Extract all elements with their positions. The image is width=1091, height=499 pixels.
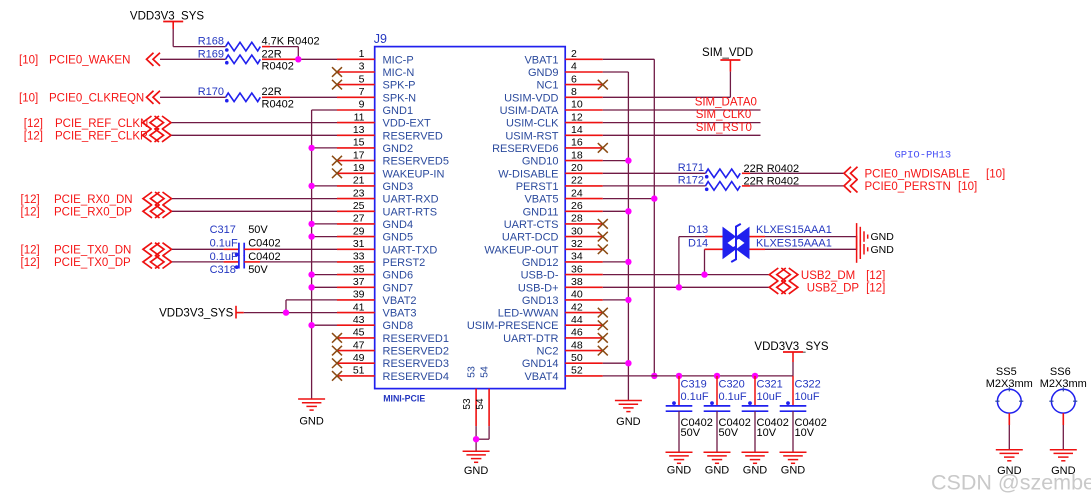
svg-text:[12]: [12]: [24, 131, 43, 143]
svg-text:10uF: 10uF: [757, 391, 782, 403]
svg-text:GND2: GND2: [383, 143, 414, 155]
svg-text:GND4: GND4: [383, 219, 414, 231]
svg-text:[10]: [10]: [19, 55, 38, 67]
svg-text:34: 34: [571, 251, 583, 263]
svg-text:50V: 50V: [681, 427, 701, 439]
wire C319 to GND: [678, 411, 680, 452]
wire SIM_VDD to pin 8: [603, 72, 731, 98]
wire R168 to pin1 net: [262, 47, 298, 60]
wire C317 to pin 31: [244, 248, 337, 250]
wire pin 38 net to D13: [679, 237, 723, 288]
svg-text:25: 25: [353, 200, 365, 212]
svg-text:RESERVED6: RESERVED6: [492, 143, 558, 155]
svg-text:MIC-P: MIC-P: [383, 54, 414, 66]
svg-text:28: 28: [571, 213, 583, 225]
wire PCIE0_CLKREQN to R170: [160, 96, 226, 98]
wire VBAT4 rail (pin 52): [603, 375, 793, 377]
junction VBAT bus rail: [651, 373, 657, 379]
pin 51 (RESERVED4): [337, 365, 449, 383]
svg-text:50V: 50V: [719, 427, 739, 439]
ground GND (D14, rotated): [857, 236, 895, 263]
pin 18 (GND10): [522, 149, 603, 167]
svg-text:WAKEUP-IN: WAKEUP-IN: [383, 168, 445, 180]
pin 54: [475, 366, 491, 426]
svg-text:[12]: [12]: [21, 245, 40, 257]
ground GND (left bus): [298, 399, 325, 428]
svg-text:24: 24: [571, 187, 583, 199]
svg-text:NC2: NC2: [536, 346, 558, 358]
power symbol VDD3V3_SYS (bottom right): [754, 341, 828, 376]
off-page connector PCIE_REF_CLKP: [24, 129, 171, 143]
svg-text:D13: D13: [688, 224, 708, 236]
capacitor C318 0.1uF: [210, 251, 281, 276]
svg-text:33: 33: [353, 251, 365, 263]
svg-text:C317: C317: [210, 224, 236, 236]
pin 50 (GND14): [522, 352, 603, 370]
junction right GND bus: [625, 360, 631, 366]
resistor R170 22R: [198, 86, 294, 110]
svg-text:USB-D-: USB-D-: [521, 270, 559, 282]
svg-text:NC1: NC1: [536, 80, 558, 92]
wire PCIE_TX0_DP to C318: [172, 261, 239, 263]
svg-text:SPK-N: SPK-N: [383, 92, 417, 104]
svg-text:53: 53: [466, 366, 478, 378]
ground GND (C321): [742, 452, 769, 476]
pin 41 (VBAT3): [337, 301, 417, 319]
mounting hole SS6 M2X3mm: [1040, 366, 1087, 413]
svg-text:VBAT4: VBAT4: [524, 371, 558, 383]
pin 47 (RESERVED2): [337, 339, 449, 357]
svg-text:22R: 22R: [262, 86, 282, 98]
pin 16 (RESERVED6): [492, 137, 603, 155]
svg-text:USIM-CLK: USIM-CLK: [506, 118, 559, 130]
off-page connector PCIE0_nWDISABLE: [844, 167, 1005, 181]
pin 10 (USIM-DATA): [500, 99, 603, 117]
pin 13 (RESERVED): [337, 124, 443, 142]
svg-text:3: 3: [359, 61, 365, 73]
svg-text:GND: GND: [871, 231, 895, 243]
svg-text:53: 53: [462, 398, 473, 410]
svg-text:C318: C318: [210, 264, 236, 276]
no-connect X pin 42: [598, 308, 608, 318]
svg-text:41: 41: [353, 301, 365, 313]
svg-text:4: 4: [571, 61, 577, 73]
svg-text:GND: GND: [743, 465, 768, 477]
wire pin 22 to R172: [603, 185, 706, 187]
pin 6 (NC1): [536, 73, 602, 91]
pin 39 (VBAT2): [337, 289, 417, 307]
svg-text:VDD3V3_SYS: VDD3V3_SYS: [754, 341, 828, 353]
wire R171 to PCIE0_nWDISABLE: [742, 172, 844, 174]
svg-text:GND13: GND13: [522, 295, 559, 307]
junction right GND bus: [625, 157, 631, 163]
pin 53: [462, 366, 478, 426]
svg-text:R168: R168: [198, 36, 224, 48]
resistor R172 22R: [678, 174, 799, 191]
pin 46 (UART-DTR): [503, 327, 603, 345]
svg-text:29: 29: [353, 225, 365, 237]
power symbol SIM_VDD: [702, 47, 753, 72]
pin 8 (USIM-VDD): [504, 86, 603, 104]
wire D14 to GND: [750, 248, 857, 250]
off-page connector PCIE0_WAKEN: [19, 53, 160, 67]
net label SIM_CLK0 wire pin 12: [603, 109, 761, 123]
svg-text:USB2_DM: USB2_DM: [801, 270, 855, 282]
pin 42 (LED-WWAN): [498, 301, 603, 319]
svg-text:R169: R169: [198, 48, 224, 60]
svg-text:UART-CTS: UART-CTS: [504, 219, 559, 231]
svg-text:R172: R172: [678, 174, 704, 186]
svg-text:GND: GND: [464, 465, 489, 477]
diode D14 KLXES15AAA1 (TVS): [688, 237, 832, 262]
svg-text:0.1uF: 0.1uF: [719, 391, 747, 403]
svg-text:35: 35: [353, 263, 365, 275]
pin 45 (RESERVED1): [337, 327, 449, 345]
no-connect X pin 45: [332, 333, 342, 343]
pin 14 (USIM-RST): [505, 124, 602, 142]
svg-text:32: 32: [571, 238, 583, 250]
wire PCIE0_WAKEN to R169: [160, 58, 226, 60]
svg-text:1: 1: [359, 48, 365, 60]
no-connect X pin 30: [598, 232, 608, 242]
svg-text:SIM_CLK0: SIM_CLK0: [696, 109, 752, 121]
svg-text:C319: C319: [681, 379, 707, 391]
svg-text:PCIE0_nWDISABLE: PCIE0_nWDISABLE: [865, 169, 971, 181]
wire D13 to GND: [750, 236, 857, 238]
svg-text:50V: 50V: [248, 264, 268, 276]
junction rail C319: [676, 373, 682, 379]
junction left GND bus: [308, 183, 314, 189]
svg-text:UART-TXD: UART-TXD: [383, 244, 438, 256]
svg-text:VBAT1: VBAT1: [524, 54, 558, 66]
svg-text:8: 8: [571, 86, 577, 98]
svg-text:[12]: [12]: [21, 207, 40, 219]
svg-text:VDD-EXT: VDD-EXT: [383, 118, 432, 130]
svg-text:C320: C320: [719, 379, 745, 391]
svg-text:J9: J9: [374, 32, 387, 46]
junction left GND bus: [308, 284, 314, 290]
pin 17 (RESERVED5): [337, 149, 449, 167]
svg-text:CSDN @szembed: CSDN @szembed: [931, 471, 1091, 495]
wire C320 to GND: [716, 411, 718, 452]
svg-text:42: 42: [571, 301, 583, 313]
svg-text:30: 30: [571, 225, 583, 237]
svg-text:0.1uF: 0.1uF: [210, 237, 238, 249]
svg-text:17: 17: [353, 149, 365, 161]
svg-text:PCIE0_CLKREQN: PCIE0_CLKREQN: [49, 93, 144, 105]
no-connect X pin 16: [598, 143, 608, 153]
pin 25 (UART-RTS): [337, 200, 437, 218]
no-connect X pin 47: [332, 346, 342, 356]
capacitor C322 10uF: [780, 379, 827, 440]
wire R169 to pin 1: [262, 58, 337, 60]
no-connect X pin 6: [598, 80, 608, 90]
pin 34 (GND12): [522, 251, 603, 269]
svg-text:7: 7: [359, 86, 365, 98]
svg-text:[10]: [10]: [958, 181, 977, 193]
svg-text:GND12: GND12: [522, 257, 559, 269]
junction D14/USB2_DM: [701, 271, 707, 277]
wire PCIE_REF_CLKP to pin 13: [172, 134, 338, 136]
pin 11 (VDD-EXT): [337, 111, 431, 129]
svg-text:SS6: SS6: [1050, 366, 1071, 378]
svg-text:USB-D+: USB-D+: [518, 282, 559, 294]
pin 20 (W-DISABLE): [498, 162, 603, 180]
pin 49 (RESERVED3): [337, 352, 449, 370]
svg-text:MINI-PCIE: MINI-PCIE: [383, 394, 425, 404]
svg-text:KLXES15AAA1: KLXES15AAA1: [756, 237, 832, 249]
pin 35 (GND6): [337, 263, 413, 281]
svg-text:PCIE_RX0_DP: PCIE_RX0_DP: [54, 207, 132, 219]
off-page connector PCIE0_CLKREQN: [19, 91, 160, 105]
svg-text:RESERVED1: RESERVED1: [383, 333, 449, 345]
svg-text:GND: GND: [871, 244, 895, 256]
svg-text:GND7: GND7: [383, 282, 414, 294]
svg-text:PCIE_TX0_DN: PCIE_TX0_DN: [54, 245, 131, 257]
no-connect X pin 32: [598, 245, 608, 255]
svg-text:16: 16: [571, 137, 583, 149]
svg-text:GND10: GND10: [522, 156, 559, 168]
svg-text:10: 10: [571, 99, 583, 111]
svg-text:12: 12: [571, 111, 583, 123]
wire SS5 to GND: [1008, 413, 1010, 450]
wire pin 38 to USB2_DP: [603, 286, 770, 288]
svg-text:27: 27: [353, 213, 365, 225]
svg-text:GND1: GND1: [383, 105, 414, 117]
svg-text:W-DISABLE: W-DISABLE: [498, 168, 558, 180]
svg-text:22: 22: [571, 175, 583, 187]
svg-text:R0402: R0402: [262, 61, 294, 73]
svg-text:44: 44: [571, 314, 583, 326]
ground GND (SS6): [1050, 450, 1077, 477]
svg-text:45: 45: [353, 327, 365, 339]
no-connect X pin 46: [598, 333, 608, 343]
svg-text:GPIO-PH13: GPIO-PH13: [895, 149, 952, 161]
svg-text:GND8: GND8: [383, 320, 414, 332]
svg-text:UART-DCD: UART-DCD: [502, 232, 559, 244]
svg-text:R170: R170: [198, 86, 224, 98]
svg-text:R171: R171: [678, 162, 704, 174]
pin 24 (VBAT5): [524, 187, 602, 205]
pin 43 (GND8): [337, 314, 413, 332]
svg-text:USIM-RST: USIM-RST: [505, 130, 558, 142]
svg-text:20: 20: [571, 162, 583, 174]
junction left GND bus: [308, 221, 314, 227]
power symbol VDD3V3_SYS (left, VBAT2/VBAT3): [159, 306, 244, 320]
ground GND (SS5): [996, 450, 1023, 477]
svg-text:GND: GND: [299, 416, 324, 428]
svg-text:4.7K R0402: 4.7K R0402: [262, 36, 320, 48]
svg-text:14: 14: [571, 124, 583, 136]
svg-text:VBAT3: VBAT3: [383, 308, 417, 320]
svg-text:PCIE_REF_CLKN: PCIE_REF_CLKN: [55, 118, 148, 130]
off-page connector PCIE_REF_CLKN: [24, 116, 171, 130]
off-page connector USB2_DP: [769, 281, 885, 295]
svg-text:C0402: C0402: [248, 251, 280, 263]
svg-text:0.1uF: 0.1uF: [210, 251, 238, 263]
pin 1 (MIC-P): [337, 48, 414, 66]
no-connect X pin 28: [598, 219, 608, 229]
svg-text:SIM_RST0: SIM_RST0: [696, 122, 752, 134]
no-connect X pin 44: [598, 320, 608, 330]
wire PCIE_REF_CLKN to pin 11: [172, 122, 338, 124]
off-page connector PCIE_RX0_DP: [21, 205, 172, 219]
wire C318 to pin 33: [244, 261, 337, 263]
wire R172 to PCIE0_PERSTN: [742, 185, 844, 187]
junction right GND bus: [625, 297, 631, 303]
svg-text:PCIE_TX0_DP: PCIE_TX0_DP: [54, 257, 131, 269]
svg-text:0.1uF: 0.1uF: [681, 391, 709, 403]
ground GND (C322): [780, 452, 807, 476]
svg-text:LED-WWAN: LED-WWAN: [498, 308, 559, 320]
pin 4 (GND9): [528, 61, 603, 79]
connector J9 body (MINI-PCIE): [375, 47, 566, 389]
pin 7 (SPK-N): [337, 86, 416, 104]
svg-text:C321: C321: [757, 379, 783, 391]
svg-text:GND11: GND11: [523, 206, 559, 218]
pin 37 (GND7): [337, 276, 413, 294]
pin 5 (SPK-P): [337, 73, 416, 91]
ground GND (D13, rotated): [857, 223, 895, 250]
svg-text:UART-RXD: UART-RXD: [383, 194, 439, 206]
svg-text:49: 49: [353, 352, 365, 364]
svg-text:[12]: [12]: [866, 270, 885, 282]
svg-text:47: 47: [353, 339, 365, 351]
svg-text:15: 15: [353, 137, 365, 149]
svg-text:10uF: 10uF: [795, 391, 820, 403]
svg-text:PERST1: PERST1: [516, 181, 559, 193]
pin 40 (GND13): [522, 289, 603, 307]
wire rail to C320: [716, 376, 718, 406]
svg-text:PCIE0_PERSTN: PCIE0_PERSTN: [865, 181, 951, 193]
junction left GND bus: [308, 271, 314, 277]
svg-text:SIM_VDD: SIM_VDD: [702, 47, 753, 59]
no-connect X pin 48: [598, 346, 608, 356]
pin 22 (PERST1): [516, 175, 603, 193]
junction right GND bus: [625, 208, 631, 214]
svg-text:50V: 50V: [248, 224, 268, 236]
pin 21 (GND3): [337, 175, 413, 193]
svg-text:26: 26: [571, 200, 583, 212]
svg-text:9: 9: [359, 99, 365, 111]
left GND bus wire: [312, 110, 337, 399]
junction VDD3V3_SYS branch: [283, 309, 289, 315]
ground GND (right bus): [615, 401, 642, 429]
pin 33 (PERST2): [337, 251, 425, 269]
ground GND (C319): [666, 452, 693, 476]
wire pin 20 to R171: [603, 172, 706, 174]
no-connect X pin 17: [332, 156, 342, 166]
svg-text:GND: GND: [667, 465, 692, 477]
diode D13 KLXES15AAA1 (TVS): [688, 224, 832, 249]
svg-text:PCIE_REF_CLKP: PCIE_REF_CLKP: [55, 131, 148, 143]
wire SS6 to GND: [1062, 413, 1064, 450]
power symbol VDD3V3_SYS (top left): [130, 11, 204, 30]
pin 9 (GND1): [337, 99, 413, 117]
net label SIM_RST0 wire pin 14: [603, 122, 761, 136]
no-connect X pin 5: [332, 80, 342, 90]
pin 38 (USB-D+): [518, 276, 603, 294]
ground GND (connector pins 53/54): [463, 451, 490, 477]
svg-text:PCIE0_WAKEN: PCIE0_WAKEN: [49, 55, 130, 67]
svg-text:[12]: [12]: [24, 118, 43, 130]
svg-text:31: 31: [353, 238, 365, 250]
svg-text:39: 39: [353, 289, 365, 301]
wire PCIE_RX0_DN to pin 23: [172, 198, 337, 200]
svg-text:52: 52: [571, 365, 583, 377]
svg-text:46: 46: [571, 327, 583, 339]
svg-text:GND14: GND14: [522, 358, 559, 370]
junction D13/USB2_DP: [676, 284, 682, 290]
svg-text:54: 54: [479, 366, 491, 378]
resistor R169 22R: [198, 48, 294, 72]
junction rail C320: [714, 373, 720, 379]
wire rail to C319: [678, 376, 680, 406]
no-connect X pin 51: [332, 371, 342, 381]
svg-text:GND6: GND6: [383, 270, 414, 282]
junction R168/R169/pin1: [295, 56, 301, 62]
off-page connector PCIE0_PERSTN: [844, 179, 977, 193]
resistor R171 22R: [678, 162, 799, 179]
resistor R168 4.7K: [198, 36, 320, 52]
pin 44 (USIM-PRESENCE): [467, 314, 603, 332]
wire C322 to GND: [792, 411, 794, 452]
svg-text:GND: GND: [616, 416, 641, 428]
svg-text:[12]: [12]: [21, 194, 40, 206]
svg-text:UART-DTR: UART-DTR: [503, 333, 558, 345]
wire VDD3V3_SYS to R168: [173, 29, 225, 47]
svg-text:21: 21: [353, 175, 365, 187]
capacitor C321 10uF: [742, 379, 789, 440]
pin 52 (VBAT4): [524, 365, 602, 383]
svg-text:RESERVED: RESERVED: [383, 130, 443, 142]
off-page connector PCIE_TX0_DN: [21, 243, 172, 257]
capacitor C319 0.1uF: [666, 379, 713, 440]
junction left GND bus: [308, 322, 314, 328]
wire R170 to pin 7: [262, 96, 337, 98]
no-connect X pin 3: [332, 67, 342, 77]
svg-text:GND5: GND5: [383, 232, 414, 244]
svg-text:USIM-PRESENCE: USIM-PRESENCE: [467, 320, 559, 332]
svg-text:11: 11: [354, 111, 365, 123]
wire pin 2 to VBAT bus: [603, 59, 655, 376]
svg-text:10V: 10V: [757, 427, 777, 439]
wire pin 36 net to D14: [705, 249, 723, 274]
pin 12 (USIM-CLK): [506, 111, 603, 129]
svg-text:6: 6: [571, 73, 577, 85]
junction left GND bus: [308, 145, 314, 151]
junction right GND bus: [625, 259, 631, 265]
capacitor C317 0.1uF: [210, 224, 281, 256]
svg-text:C0402: C0402: [248, 237, 280, 249]
wire VDD3V3_SYS to pins 39/41: [244, 300, 337, 313]
svg-text:19: 19: [353, 162, 365, 174]
svg-text:37: 37: [353, 276, 365, 288]
svg-text:D14: D14: [688, 237, 708, 249]
svg-text:MIC-N: MIC-N: [383, 67, 415, 79]
svg-text:PERST2: PERST2: [383, 257, 426, 269]
svg-text:18: 18: [571, 149, 583, 161]
svg-text:USIM-DATA: USIM-DATA: [500, 105, 560, 117]
svg-text:[12]: [12]: [21, 257, 40, 269]
svg-text:SIM_DATA0: SIM_DATA0: [695, 97, 757, 109]
ground GND (C320): [704, 452, 731, 476]
pin 15 (GND2): [337, 137, 413, 155]
svg-text:KLXES15AAA1: KLXES15AAA1: [756, 224, 832, 236]
svg-text:PCIE_RX0_DN: PCIE_RX0_DN: [54, 194, 133, 206]
svg-text:RESERVED2: RESERVED2: [383, 346, 449, 358]
pin 28 (UART-CTS): [504, 213, 603, 231]
